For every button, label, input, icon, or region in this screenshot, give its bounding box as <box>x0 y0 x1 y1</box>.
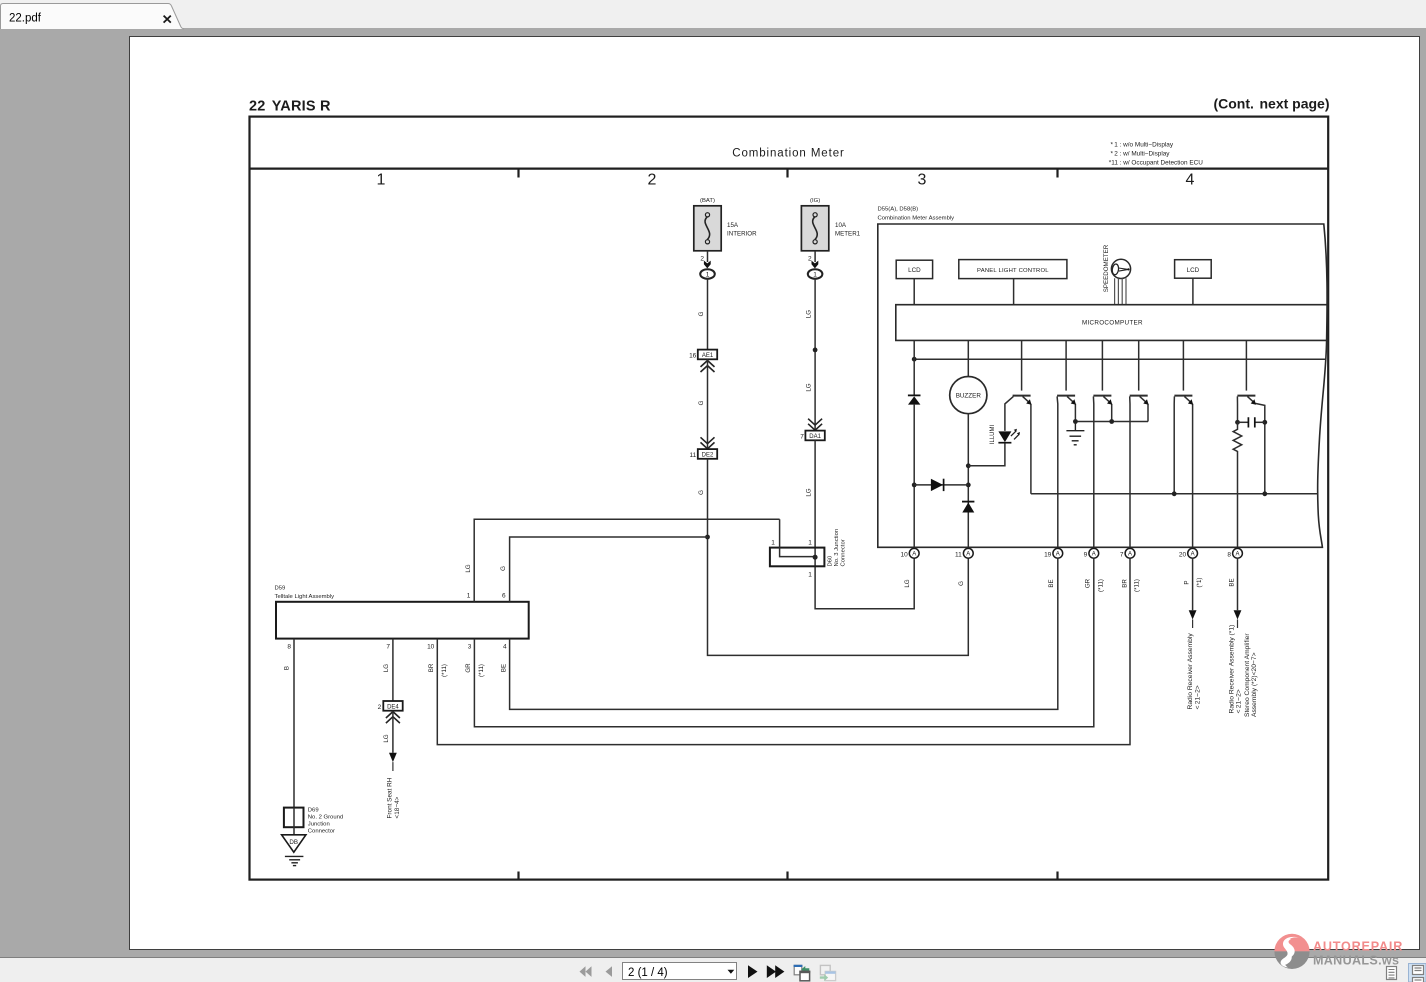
svg-text:D55(A), D58(B): D55(A), D58(B) <box>878 207 919 213</box>
ground junction connector D69 <box>284 807 343 835</box>
svg-text:LCD: LCD <box>1187 267 1200 274</box>
svg-text:(BAT): (BAT) <box>700 198 715 204</box>
svg-text:3: 3 <box>918 172 927 189</box>
connector arrow (BAT) <box>704 261 711 269</box>
svg-text:A: A <box>966 552 970 558</box>
microcomputer block U1 <box>896 305 1327 341</box>
svg-text:Telltale Light Assembly: Telltale Light Assembly <box>275 594 335 600</box>
svg-text:1: 1 <box>808 540 812 547</box>
resistor R1 <box>1233 422 1242 548</box>
assembly pin 7 <box>1125 548 1135 558</box>
svg-text:A: A <box>1191 552 1195 558</box>
svg-text:METER1: METER1 <box>835 231 861 238</box>
svg-text:LG: LG <box>904 579 911 587</box>
svg-text:10: 10 <box>900 551 908 558</box>
svg-text:(*11): (*11) <box>441 664 448 677</box>
svg-text:LG: LG <box>465 564 472 572</box>
node 1 oval (IG) <box>808 269 823 279</box>
diode D2 (pointing right) <box>914 484 968 486</box>
svg-text:Connector: Connector <box>308 828 335 834</box>
thumbnail panel icon <box>1387 967 1397 980</box>
svg-text:20: 20 <box>1179 551 1187 558</box>
svg-text:D69: D69 <box>308 807 319 813</box>
svg-text:P: P <box>1184 580 1191 584</box>
svg-text:MICROCOMPUTER: MICROCOMPUTER <box>1082 319 1143 326</box>
wire LG telltale pin1 to junction connector D60 <box>474 519 779 602</box>
svg-text:LCD: LCD <box>908 267 921 274</box>
svg-text:(IG): (IG) <box>810 198 820 204</box>
nav first page button (disabled) <box>580 966 592 977</box>
svg-text:1: 1 <box>808 572 812 579</box>
svg-text:22 YARIS R: 22 YARIS R <box>249 99 331 115</box>
svg-text:1: 1 <box>377 172 386 189</box>
fuse 15A INTERIOR (BAT) <box>694 198 757 251</box>
svg-text:2: 2 <box>700 256 704 263</box>
next view icon (disabled) <box>820 965 836 981</box>
svg-text:(*11): (*11) <box>1097 579 1104 592</box>
junction below diode <box>912 483 917 488</box>
assembly pin 8 <box>1233 548 1243 558</box>
svg-text:A: A <box>1235 552 1239 558</box>
wire PLC to microcomputer <box>1013 279 1015 305</box>
svg-text:Combination Meter Assembly: Combination Meter Assembly <box>878 216 955 222</box>
svg-text:2: 2 <box>648 172 657 189</box>
nav next page button <box>748 965 758 978</box>
svg-text:GR: GR <box>1084 578 1091 588</box>
wire G from DE2 down to junction and pin 11 <box>708 459 969 656</box>
emitter rail to next page <box>1031 493 1319 495</box>
svg-text:*11 : w/ Occupant Detection EC: *11 : w/ Occupant Detection ECU <box>1109 159 1203 166</box>
assembly pin 19 <box>1053 548 1063 558</box>
watermark logo autorepairmanuals.ws <box>1271 931 1426 971</box>
svg-text:1: 1 <box>706 271 710 278</box>
nav previous page button (disabled) <box>606 966 613 977</box>
wire LG from DA1 through D60 to pin 10 <box>815 440 914 609</box>
ground DB <box>282 835 306 866</box>
svg-text:4: 4 <box>1186 172 1195 189</box>
svg-text:8: 8 <box>287 644 291 651</box>
svg-text:G: G <box>698 400 705 405</box>
svg-text:(*1): (*1) <box>1196 578 1203 588</box>
svg-text:MANUALS.ws: MANUALS.ws <box>1313 954 1399 968</box>
pages panel icon (active) <box>1409 964 1426 982</box>
svg-text:7: 7 <box>1120 551 1124 558</box>
svg-text:1: 1 <box>813 271 817 278</box>
svg-text:BE: BE <box>1048 579 1055 587</box>
previous view icon <box>794 965 811 981</box>
svg-text:BR: BR <box>1121 579 1128 588</box>
transistor Q6 <box>1237 340 1264 493</box>
svg-text:Radio Receiver Assembly: Radio Receiver Assembly <box>1187 633 1194 710</box>
transistor Q2 <box>1057 340 1075 548</box>
junction on rail <box>912 357 917 362</box>
junction node on LG wire <box>813 348 818 353</box>
svg-text:2: 2 <box>808 256 812 263</box>
svg-text:(*11): (*11) <box>478 664 485 677</box>
svg-text:BE: BE <box>1229 578 1236 586</box>
svg-text:16: 16 <box>689 352 697 359</box>
wire LG DE4 to front seat RH <box>392 711 394 753</box>
svg-text:LG: LG <box>806 488 813 496</box>
svg-text:Front Seat RH: Front Seat RH <box>386 777 393 818</box>
speedometer <box>1103 244 1131 304</box>
svg-text:10: 10 <box>427 644 435 651</box>
svg-text:AUTOREPAIR: AUTOREPAIR <box>1313 940 1403 954</box>
svg-text:D60: D60 <box>828 555 834 567</box>
svg-text:Combination Meter: Combination Meter <box>732 148 844 160</box>
svg-text:SPEEDOMETER: SPEEDOMETER <box>1103 244 1110 292</box>
svg-text:2: 2 <box>378 704 382 711</box>
svg-text:<18−4>: <18−4> <box>394 796 401 818</box>
svg-text:DE4: DE4 <box>387 704 399 710</box>
node 1 oval (BAT) <box>700 269 715 279</box>
svg-text:10A: 10A <box>835 222 847 229</box>
svg-text:1: 1 <box>467 592 471 599</box>
ground (internal) <box>1066 422 1084 445</box>
svg-text:G: G <box>500 566 507 571</box>
svg-text:LG: LG <box>806 383 813 391</box>
bottom toolbar <box>0 957 1426 982</box>
svg-text:LG: LG <box>806 310 813 318</box>
svg-text:9: 9 <box>1084 551 1088 558</box>
internal supply rail <box>914 358 1326 360</box>
diode D3 (pointing down) <box>962 503 974 513</box>
svg-text:1: 1 <box>771 540 775 547</box>
arrow to front seat RH <box>389 753 397 762</box>
wire microcomputer to pin 10 <box>913 340 915 548</box>
panel light control block <box>959 260 1067 279</box>
svg-text:8: 8 <box>1227 551 1231 558</box>
assembly pin 10 <box>909 548 919 558</box>
buzzer <box>967 340 969 376</box>
svg-text:AE1: AE1 <box>702 353 714 359</box>
LCD block 1 <box>896 260 932 278</box>
wire LCD2 to microcomputer <box>1192 278 1194 305</box>
svg-text:D59: D59 <box>275 586 286 592</box>
column tick marks bottom <box>519 872 1058 880</box>
emitter bus for Q2 Q3 Q4 <box>1075 421 1148 423</box>
svg-text:19: 19 <box>1044 551 1052 558</box>
svg-text:11: 11 <box>955 551 962 558</box>
LED ILLUMI <box>968 425 1020 466</box>
svg-text:B: B <box>284 666 291 670</box>
svg-text:< 21−2>: < 21−2> <box>1236 689 1243 713</box>
header divider line <box>250 168 1329 170</box>
wire P to radio receiver assembly <box>1184 558 1203 709</box>
svg-text:No. 3 Junction: No. 3 Junction <box>834 529 840 567</box>
svg-text:Assembly (*2)<20−7>: Assembly (*2)<20−7> <box>1251 652 1258 717</box>
svg-text:DB: DB <box>289 839 298 846</box>
transistor Q1 <box>1005 340 1031 493</box>
svg-text:BUZZER: BUZZER <box>956 392 982 399</box>
svg-text:Stereo Component Amplifier: Stereo Component Amplifier <box>1244 633 1251 717</box>
svg-text:3: 3 <box>468 644 472 651</box>
junction connector D60 No.3 <box>770 519 847 578</box>
page number combo box <box>623 963 737 980</box>
svg-text:BR: BR <box>428 663 435 672</box>
diode D1 (cathode up) <box>908 394 921 396</box>
transistor Q5 <box>1174 340 1192 548</box>
svg-text:DE2: DE2 <box>702 453 714 459</box>
svg-text:LG: LG <box>383 664 390 672</box>
column tick marks top <box>519 169 1058 178</box>
wire buzzer to pin 11 <box>967 414 969 549</box>
nav last page button <box>767 965 785 978</box>
assembly pin 9 <box>1089 548 1099 558</box>
wire LCD1 to microcomputer <box>913 279 915 305</box>
svg-text:* 2 : w/ Multi−Display: * 2 : w/ Multi−Display <box>1111 150 1171 157</box>
capacitor C1 <box>1235 417 1267 427</box>
wire G telltale pin6 to junction node <box>510 537 708 602</box>
svg-text:7: 7 <box>800 433 804 440</box>
LCD block 2 <box>1175 260 1212 279</box>
svg-text:(Cont. next page): (Cont. next page) <box>1213 96 1329 112</box>
svg-text:A: A <box>1128 552 1132 558</box>
svg-text:G: G <box>698 311 705 316</box>
assembly pin 20 <box>1188 548 1198 558</box>
column numbers <box>377 172 1195 189</box>
svg-text:BE: BE <box>500 664 507 672</box>
variant notes <box>1109 141 1203 166</box>
svg-text:* 1 : w/o Multi−Display: * 1 : w/o Multi−Display <box>1111 141 1174 148</box>
svg-text:PANEL LIGHT CONTROL: PANEL LIGHT CONTROL <box>977 268 1049 274</box>
telltale light assembly D59 <box>275 586 529 639</box>
wire fuse IG to node <box>814 251 816 262</box>
assembly pin 11 <box>963 548 973 558</box>
svg-text:INTERIOR: INTERIOR <box>727 231 757 238</box>
svg-text:A: A <box>1056 552 1060 558</box>
svg-text:DA1: DA1 <box>809 434 821 440</box>
svg-text:11: 11 <box>690 452 697 459</box>
tab close button <box>164 16 171 23</box>
svg-text:A: A <box>1092 552 1096 558</box>
svg-text:LG: LG <box>383 734 390 742</box>
svg-text:4: 4 <box>503 644 507 651</box>
wire G between AE1 and DE2 <box>707 359 709 449</box>
schematic border frame <box>250 117 1329 880</box>
svg-text:G: G <box>698 490 705 495</box>
svg-text:G: G <box>958 581 965 586</box>
svg-text:Junction: Junction <box>308 821 330 827</box>
svg-text:Connector: Connector <box>841 539 847 566</box>
junction node on G wire <box>705 535 710 540</box>
transistor Q4 <box>1130 340 1148 548</box>
svg-text:6: 6 <box>502 592 506 599</box>
svg-text:No. 2 Ground: No. 2 Ground <box>308 814 343 820</box>
svg-text:A: A <box>912 552 916 558</box>
svg-text:15A: 15A <box>727 222 739 229</box>
svg-text:ILLUMI: ILLUMI <box>990 425 996 445</box>
connector DE2 pin 11 <box>701 437 715 449</box>
browser tab bar <box>0 0 1426 28</box>
tab 22.pdf <box>1 4 185 30</box>
connector DA1 pin 7 <box>808 419 822 431</box>
svg-text:7: 7 <box>386 644 390 651</box>
svg-text:GR: GR <box>465 663 472 673</box>
wire BE to radio receiver / stereo amplifier <box>1228 558 1258 717</box>
svg-text:(*11): (*11) <box>1133 579 1140 592</box>
svg-text:Radio Receiver Assembly (*1): Radio Receiver Assembly (*1) <box>1228 625 1235 714</box>
wire LG from node 1 to DA1 <box>814 279 816 431</box>
connector arrow (IG) <box>812 261 819 269</box>
wire G from node 1 to connector AE1 <box>707 279 709 350</box>
wire fuse BAT to node <box>707 251 709 262</box>
combination meter assembly D55(A) D58(B) <box>878 207 1328 548</box>
fuse 10A METER1 (IG) <box>801 198 860 251</box>
svg-text:< 21−2>: < 21−2> <box>1195 685 1202 709</box>
transistor Q3 <box>1093 340 1111 548</box>
